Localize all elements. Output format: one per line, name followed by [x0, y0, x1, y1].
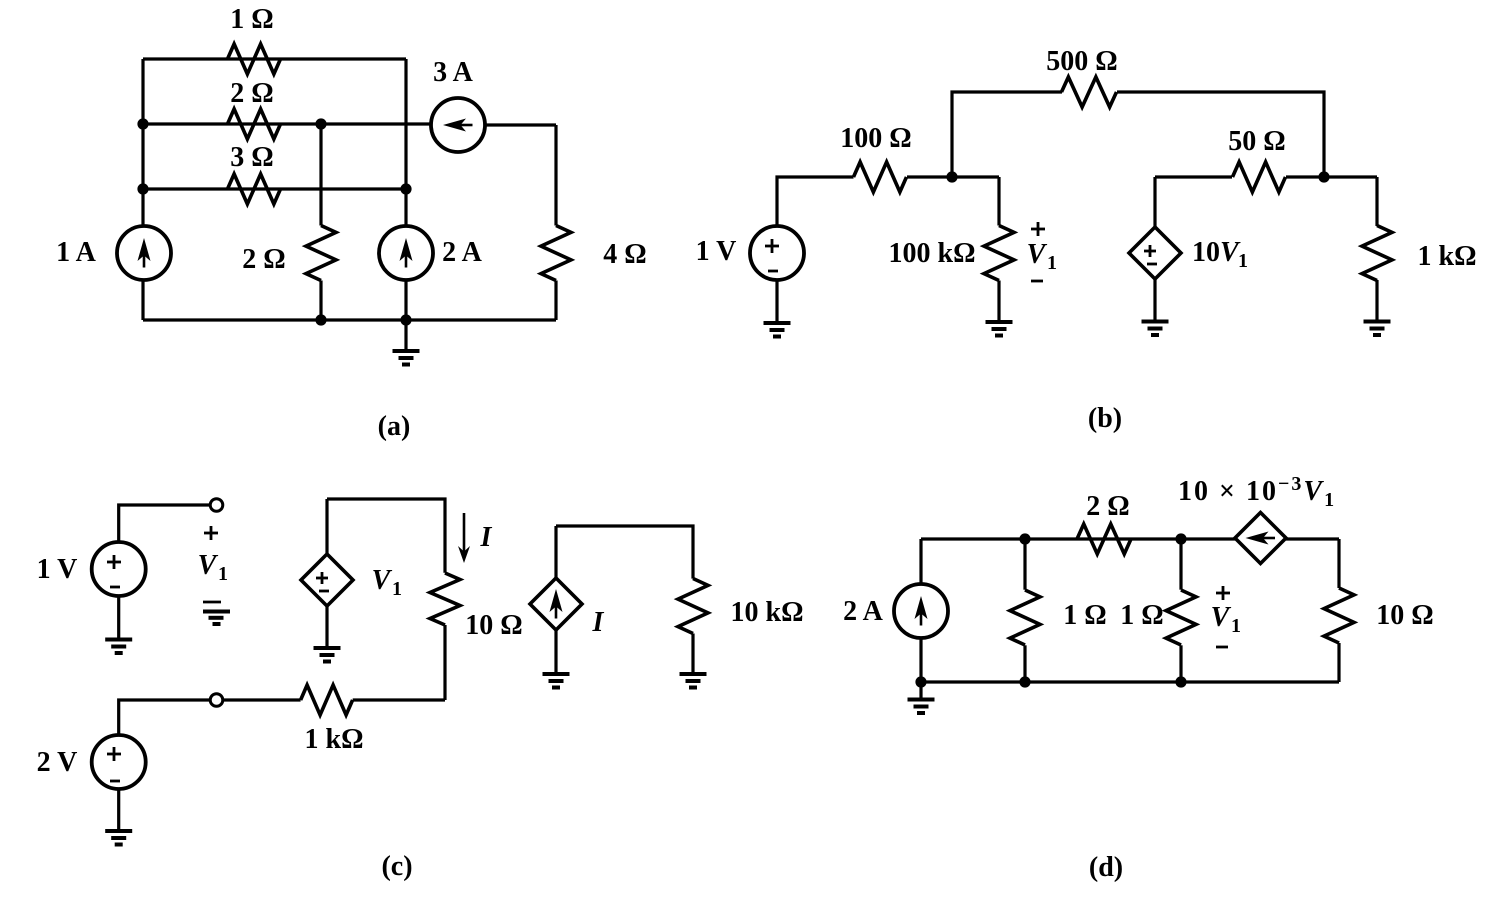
svg-text:1: 1 — [218, 563, 228, 585]
resistor 1 kohm b — [1362, 226, 1392, 281]
svg-text:2 Ω: 2 Ω — [242, 244, 285, 275]
svg-text:3 A: 3 A — [433, 57, 473, 88]
svg-text:1: 1 — [1047, 252, 1057, 274]
wire terminal to 1k — [223, 698, 301, 701]
wire 1V to terminal — [119, 505, 210, 542]
resistor 10 ohm c — [430, 573, 460, 625]
node dot bottom middle — [315, 314, 326, 325]
svg-text:3 Ω: 3 Ω — [230, 142, 273, 173]
svg-text:4 Ω: 4 Ω — [603, 239, 646, 270]
wire 2 ohm row — [143, 122, 431, 125]
node dot left 2ohm row — [137, 118, 148, 129]
svg-text:1 Ω: 1 Ω — [230, 4, 273, 35]
wire below 100k — [997, 281, 1000, 323]
wire right vertical circuit a — [404, 59, 407, 226]
resistor 1 ohm top — [228, 44, 281, 74]
svg-text:I: I — [480, 522, 493, 553]
svg-text:100 kΩ: 100 kΩ — [889, 238, 976, 269]
wire 500 to right node — [1117, 92, 1324, 177]
dependent source diamond d — [1235, 513, 1286, 564]
svg-text:1 kΩ: 1 kΩ — [1418, 241, 1477, 272]
wire middle vertical circuit a — [319, 124, 322, 226]
resistor 1 ohm d2 — [1179, 539, 1182, 590]
wire diamond top to 10 ohm top — [327, 499, 445, 573]
node dot bottom 2A — [400, 314, 411, 325]
dependent source 10V1 — [1153, 177, 1156, 227]
svg-text:2 V: 2 V — [37, 747, 78, 778]
dependent current source I — [530, 578, 582, 630]
resistor 10 ohm d — [1337, 539, 1340, 588]
svg-text:2 Ω: 2 Ω — [230, 78, 273, 109]
resistor 100 kohm — [984, 226, 1014, 281]
node dot bottom d0 — [915, 676, 926, 687]
wire top row circuit d — [921, 537, 1235, 540]
svg-text:(c): (c) — [381, 851, 412, 882]
wire 1k to corner — [353, 698, 445, 701]
ground below 1V — [775, 280, 778, 323]
node dot b right — [1318, 171, 1329, 182]
node dot middle 2ohm row — [315, 118, 326, 129]
resistor 500 ohm — [1062, 77, 1117, 107]
ground below 2V — [117, 789, 120, 831]
resistor 2 ohm d — [1077, 524, 1131, 554]
resistor 50 ohm — [1233, 162, 1286, 192]
open terminal top — [210, 499, 223, 512]
svg-text:I: I — [592, 607, 605, 638]
svg-text:2 Ω: 2 Ω — [1086, 491, 1129, 522]
ground below V1 diamond — [325, 606, 328, 648]
wire 10ohm to bottom — [443, 625, 446, 700]
svg-text:1: 1 — [1231, 615, 1241, 637]
svg-text:2 A: 2 A — [442, 237, 482, 268]
wire 1V to 100ohm row — [777, 177, 854, 226]
resistor 1 ohm d1 — [1023, 539, 1026, 590]
ground below diamond I — [554, 630, 557, 674]
ground below diamond b — [1153, 279, 1156, 322]
wire 100ohm to node — [907, 175, 999, 178]
node dot bottom d1 — [1019, 676, 1030, 687]
current source 2 A d — [919, 539, 922, 584]
resistor 4 ohm — [541, 226, 571, 281]
svg-text:100 Ω: 100 Ω — [840, 123, 911, 154]
voltage source 2 V — [92, 735, 146, 789]
node dot b left — [946, 171, 957, 182]
svg-text:50 Ω: 50 Ω — [1228, 126, 1285, 157]
svg-text:(d): (d) — [1089, 852, 1123, 883]
svg-text:(a): (a) — [378, 411, 411, 442]
resistor 100 ohm — [854, 162, 907, 192]
wire to 1k — [1375, 177, 1378, 226]
svg-text:10 Ω: 10 Ω — [465, 610, 522, 641]
wire 2V to terminal — [119, 700, 210, 735]
plus V1 label b — [1031, 228, 1045, 231]
svg-text:1 Ω: 1 Ω — [1120, 600, 1163, 631]
svg-text:500 Ω: 500 Ω — [1046, 46, 1117, 77]
node dot right 3ohm row — [400, 183, 411, 194]
svg-text:10: 10 — [1192, 237, 1220, 268]
wire 3 ohm row — [143, 187, 406, 190]
ground below 100k — [986, 320, 1013, 324]
plus terminal label — [204, 532, 218, 535]
resistor 2 ohm vertical — [306, 226, 336, 281]
ground below 10k c — [680, 672, 707, 676]
ground below 1V c — [117, 596, 120, 640]
wire bottom circuit a — [143, 318, 556, 321]
wire 50 ohm row — [1155, 175, 1232, 178]
resistor 2 ohm row2 — [228, 109, 281, 139]
voltage source 1 V — [750, 226, 804, 280]
svg-text:2 A: 2 A — [843, 596, 883, 627]
wire node up to 500 row — [952, 92, 1062, 177]
wire below 10k — [691, 634, 694, 675]
wire to 100k — [997, 177, 1000, 226]
resistor 3 ohm row3 — [228, 174, 281, 204]
ground below 1k — [1364, 320, 1391, 324]
svg-text:(b): (b) — [1088, 403, 1122, 434]
svg-text:1 kΩ: 1 kΩ — [305, 724, 364, 755]
svg-text:V: V — [1027, 239, 1048, 270]
node dot bottom d2 — [1175, 676, 1186, 687]
node dot left 3ohm row — [137, 183, 148, 194]
wire 4 ohm branch — [554, 125, 557, 226]
voltage source 1 V c — [92, 542, 146, 596]
node dot d1 — [1019, 533, 1030, 544]
current source 1 A — [117, 226, 171, 280]
dependent source V1 diamond — [325, 499, 328, 553]
svg-text:10 kΩ: 10 kΩ — [731, 597, 804, 628]
svg-text:10 Ω: 10 Ω — [1376, 600, 1433, 631]
wire left vertical circuit a — [141, 59, 144, 226]
resistor 10 kohm c — [678, 579, 708, 634]
current arrow I — [463, 513, 466, 552]
svg-text:10 × 10−3V1: 10 × 10−3V1 — [1178, 473, 1336, 511]
svg-text:1 A: 1 A — [56, 237, 96, 268]
current source 2 A — [379, 226, 433, 280]
current source 3 A — [431, 98, 485, 152]
plus V1 label d — [1216, 592, 1230, 595]
svg-text:V: V — [198, 550, 219, 581]
wire diamond I to 10k — [554, 526, 557, 578]
resistor 1 kohm c — [301, 685, 353, 715]
wire bottom circuit d — [921, 680, 1339, 683]
minus V1 label d — [1216, 646, 1228, 649]
svg-text:1: 1 — [392, 578, 402, 600]
open terminal bottom — [210, 694, 223, 707]
minus V1 label b — [1031, 280, 1043, 283]
svg-text:1 V: 1 V — [37, 554, 78, 585]
minus and ground mark under V1 — [203, 601, 221, 604]
svg-text:1: 1 — [1238, 250, 1248, 272]
svg-text:1 V: 1 V — [696, 236, 737, 267]
ground circuit d — [919, 682, 922, 700]
svg-text:1 Ω: 1 Ω — [1063, 600, 1106, 631]
ground circuit a — [404, 320, 407, 351]
wire top row circuit a — [143, 57, 406, 60]
node dot d2 — [1175, 533, 1186, 544]
svg-text:V: V — [1211, 602, 1232, 633]
svg-text:V: V — [372, 565, 393, 596]
